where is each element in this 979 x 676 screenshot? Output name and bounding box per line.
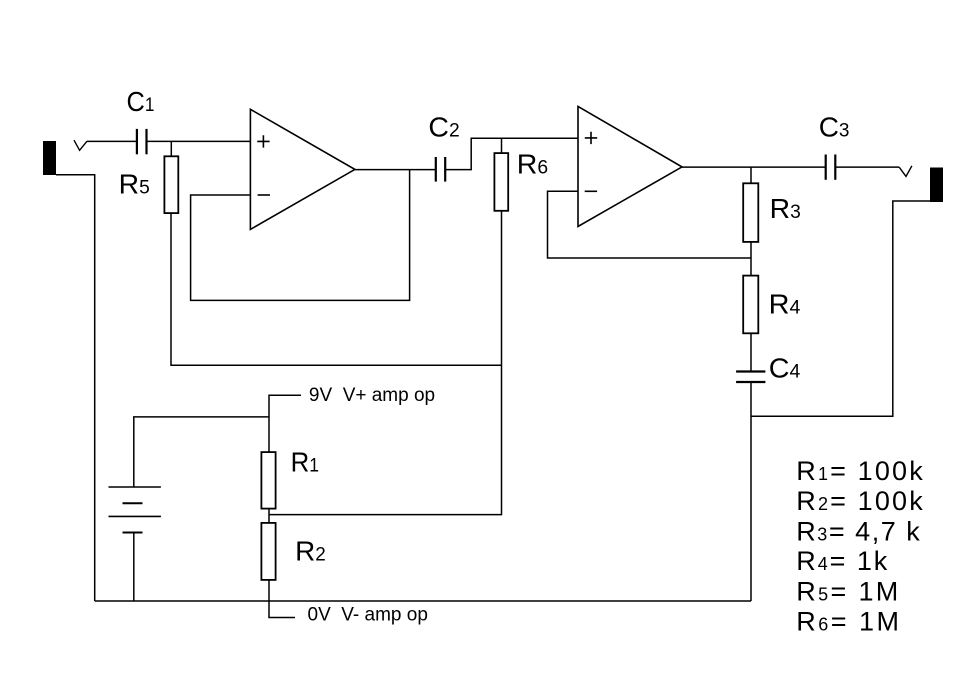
- value label R1=100k: [796, 456, 923, 486]
- wire C1 to op-amp U1 + input: [147, 140, 251, 142]
- svg-text:9V V+ amp op: 9V V+ amp op: [309, 385, 435, 406]
- wire U1 - input feedback: [191, 169, 410, 300]
- wire input to C1: [87, 140, 137, 142]
- node junction C1/R5: [170, 141, 172, 156]
- capacitor C4: [736, 353, 801, 384]
- value label R2=100k: [796, 486, 923, 516]
- wire U2 output to C3: [682, 166, 826, 168]
- value label R3=4,7k: [796, 517, 920, 547]
- node 0V terminal: [269, 580, 428, 626]
- node junction C2/R6: [501, 138, 503, 153]
- capacitor C1: [127, 86, 155, 154]
- wire U2 - input feedback: [548, 191, 752, 258]
- capacitor C3: [819, 112, 850, 180]
- svg-text:R4= 1k: R4= 1k: [796, 546, 888, 576]
- wire R4 to C4: [750, 333, 752, 371]
- wire U1 output to C2: [355, 169, 436, 171]
- value label R6=1M: [796, 607, 899, 637]
- resistor R4: [743, 276, 801, 334]
- svg-text:R3= 4,7 k: R3= 4,7 k: [796, 517, 920, 547]
- wire R1 to R2 divider node: [268, 509, 270, 523]
- resistor R5: [119, 156, 179, 213]
- node junction output/R3: [750, 167, 752, 183]
- resistor R1: [261, 447, 319, 509]
- output jack: [930, 168, 943, 203]
- value label R5=1M: [796, 576, 898, 606]
- wire C4 down to ground bus: [750, 382, 752, 601]
- wire battery + to 9V node: [134, 417, 269, 487]
- value label R4=1k: [796, 546, 888, 576]
- wire R5 bottom to bias net: [171, 213, 502, 365]
- wire R6 bottom to divider node: [269, 211, 502, 515]
- node 9V terminal: [269, 385, 435, 452]
- svg-text:R1= 100k: R1= 100k: [796, 456, 923, 486]
- svg-text:R2= 100k: R2= 100k: [796, 486, 923, 516]
- output plug symbol: [899, 166, 912, 177]
- battery BT1: [109, 487, 161, 533]
- op-amp U2: [578, 106, 682, 226]
- capacitor C2: [428, 112, 459, 182]
- ground bus wire: [95, 600, 751, 602]
- op-amp U1: [250, 109, 355, 229]
- wire output jack ground: [751, 201, 930, 416]
- wire battery - to ground bus: [133, 533, 135, 602]
- wire R3 to R4: [750, 242, 752, 276]
- wire C3 to output plug: [835, 166, 899, 168]
- resistor R3: [743, 183, 801, 242]
- input jack: [43, 141, 56, 175]
- resistor R6: [494, 148, 548, 210]
- wire C2 to op-amp U2 + input: [445, 138, 578, 169]
- resistor R2: [261, 523, 325, 580]
- input plug symbol: [74, 140, 87, 150]
- svg-text:0V V- amp op: 0V V- amp op: [308, 605, 428, 626]
- wire input jack ground: [56, 175, 95, 601]
